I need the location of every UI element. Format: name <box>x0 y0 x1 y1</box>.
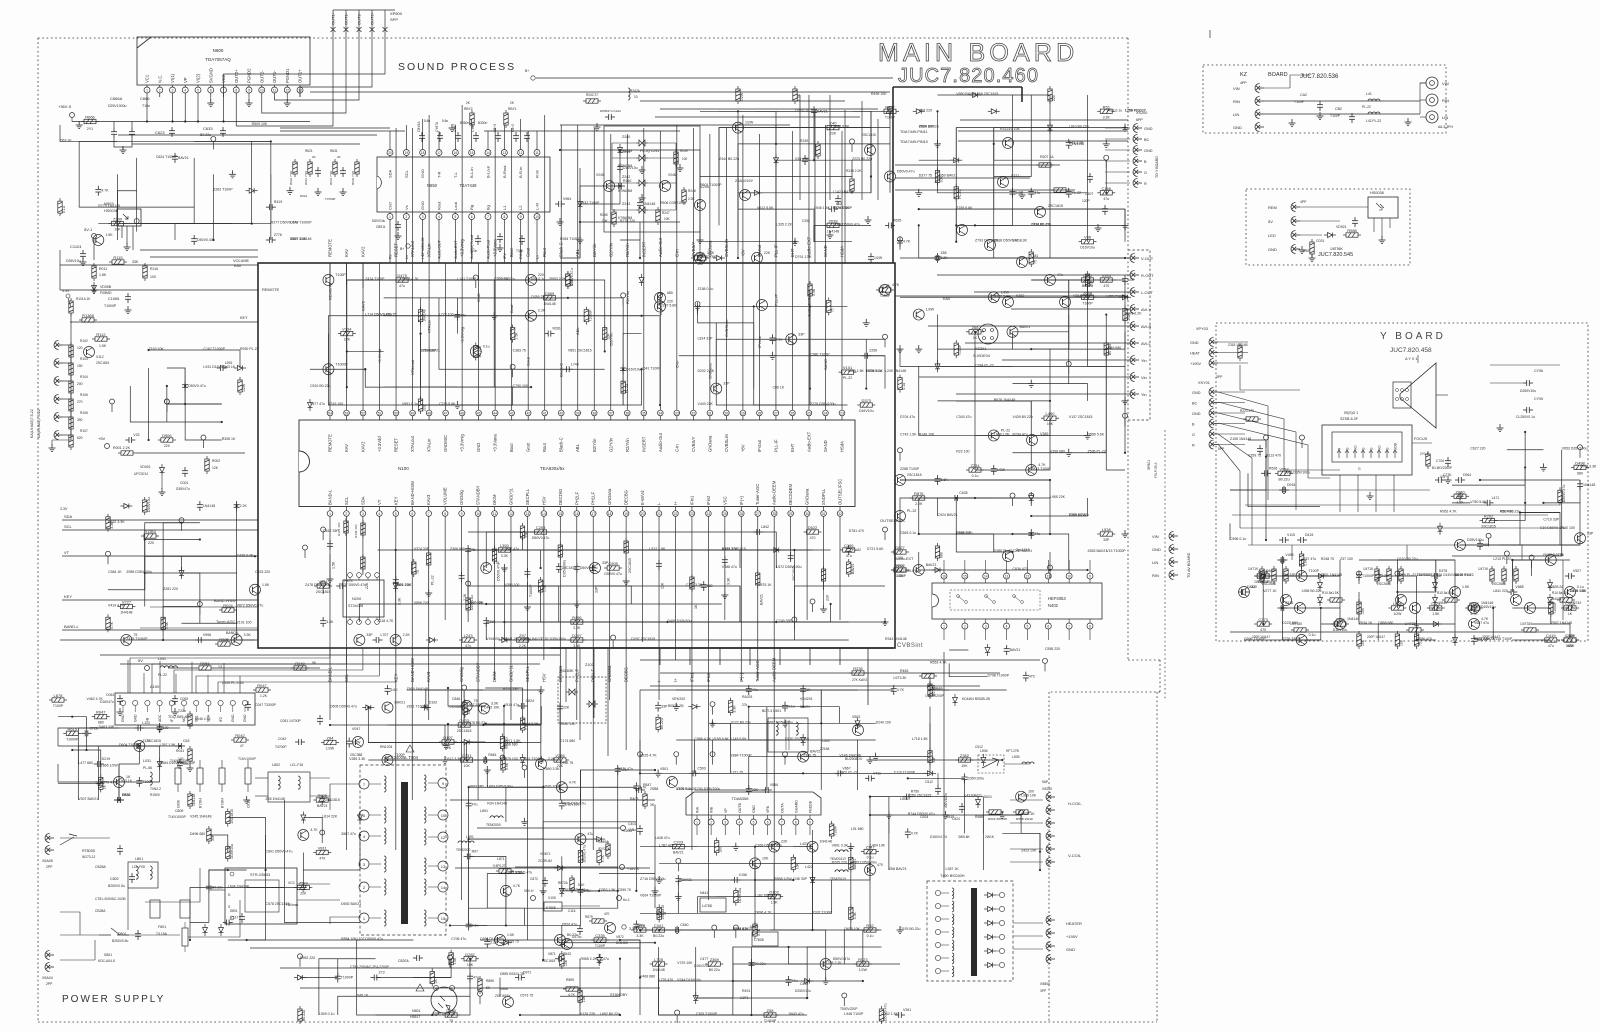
svg-text:D35V10u: D35V10u <box>66 259 81 263</box>
svg-text:IF: IF <box>170 719 174 722</box>
svg-text:IFVout: IFVout <box>757 336 762 348</box>
svg-text:CB+2: CB+2 <box>511 124 515 132</box>
svg-text:V307 BAV21: V307 BAV21 <box>78 797 98 801</box>
svg-text:D377 75: D377 75 <box>919 174 932 178</box>
svg-text:R625: R625 <box>893 218 901 222</box>
svg-text:R972 3.3K: R972 3.3K <box>994 294 1011 298</box>
svg-text:Audio-EXT: Audio-EXT <box>895 557 914 561</box>
svg-text:V246: V246 <box>668 173 676 177</box>
svg-text:R1368: R1368 <box>82 313 95 318</box>
svg-text:GNDdig: GNDdig <box>459 489 464 505</box>
svg-text:L509 0.1u: L509 0.1u <box>319 1012 335 1016</box>
svg-text:54: 54 <box>328 411 332 415</box>
svg-text:Z884 T1000P: Z884 T1000P <box>731 754 753 758</box>
svg-text:25: 25 <box>807 411 811 415</box>
svg-text:B2/Y/in: B2/Y/in <box>592 438 597 452</box>
svg-text:47u: 47u <box>460 314 466 318</box>
svg-text:RA201: RA201 <box>742 695 753 699</box>
svg-text:5.6K: 5.6K <box>391 688 399 692</box>
svg-text:220: 220 <box>164 444 170 448</box>
svg-text:F05MD: F05MD <box>100 291 112 295</box>
svg-text:CVBSLim: CVBSLim <box>724 433 729 452</box>
svg-text:GND: GND <box>1192 412 1201 416</box>
svg-text:D50V0.47u: D50V0.47u <box>188 384 206 388</box>
svg-text:1N4148: 1N4148 <box>423 309 427 321</box>
svg-text:Bg: Bg <box>486 205 491 210</box>
svg-text:Z68 BAV21: Z68 BAV21 <box>889 867 907 871</box>
svg-text:Z337 T100P: Z337 T100P <box>813 910 833 914</box>
svg-text:L-OUT: L-OUT <box>1141 290 1154 295</box>
svg-text:C329 220: C329 220 <box>494 277 509 281</box>
svg-text:+36V-S: +36V-S <box>58 104 72 109</box>
svg-text:17: 17 <box>591 512 595 516</box>
svg-text:C750 D35V100u: C750 D35V100u <box>694 787 720 791</box>
svg-text:CB2: CB2 <box>1335 107 1342 111</box>
svg-text:B-L-in: B-L-in <box>469 167 474 178</box>
svg-text:1/2W: 1/2W <box>926 308 935 312</box>
svg-text:R647: R647 <box>96 710 106 715</box>
svg-text:D441: D441 <box>1247 585 1255 589</box>
svg-text:7: 7 <box>487 215 489 219</box>
svg-text:2SA1015Y: 2SA1015Y <box>735 179 754 183</box>
svg-text:Z108 1N4148: Z108 1N4148 <box>1230 437 1251 441</box>
svg-text:T1000P: T1000P <box>66 737 79 741</box>
svg-text:V105: V105 <box>548 896 556 900</box>
svg-text:1N4148: 1N4148 <box>203 504 215 508</box>
svg-text:R116: R116 <box>150 267 158 271</box>
svg-text:2SC1815: 2SC1815 <box>96 361 110 365</box>
svg-text:390: 390 <box>77 418 83 422</box>
svg-text:RIN: RIN <box>1442 98 1449 103</box>
svg-text:VOLUME: VOLUME <box>233 259 250 263</box>
svg-text:GND: GND <box>1152 547 1161 552</box>
svg-text:R303 D35V100u: R303 D35V100u <box>562 888 588 892</box>
svg-text:C779 4.7K: C779 4.7K <box>101 780 118 784</box>
svg-text:T100P: T100P <box>335 273 346 277</box>
svg-text:2.2K: 2.2K <box>538 309 546 313</box>
svg-text:SAND: SAND <box>823 440 828 452</box>
svg-text:Lv: Lv <box>405 255 409 259</box>
svg-text:1N4148: 1N4148 <box>643 202 655 206</box>
svg-text:L948 T100P: L948 T100P <box>844 1012 864 1016</box>
svg-text:DECBG: DECBG <box>624 490 629 505</box>
svg-text:R952 4.7K: R952 4.7K <box>1440 510 1457 514</box>
svg-text:T100P: T100P <box>595 944 606 948</box>
svg-text:R294 47u: R294 47u <box>1013 432 1028 436</box>
svg-text:22K: 22K <box>764 251 771 255</box>
svg-text:C1065: C1065 <box>108 297 119 301</box>
svg-text:1/4T330: 1/4T330 <box>1290 622 1302 626</box>
svg-text:KDC-A04-5: KDC-A04-5 <box>98 959 115 963</box>
svg-text:C337 5.6K: C337 5.6K <box>660 303 677 307</box>
svg-text:PL-22: PL-22 <box>1072 191 1081 195</box>
svg-text:R890A: R890A <box>598 840 609 844</box>
svg-text:KAV3: KAV3 <box>426 494 431 505</box>
svg-text:D16V10u: D16V10u <box>230 844 234 859</box>
svg-text:6: 6 <box>210 89 212 93</box>
svg-text:D40 3.3K: D40 3.3K <box>1069 141 1084 145</box>
svg-text:14: 14 <box>984 575 988 579</box>
svg-text:T10n: T10n <box>142 104 150 108</box>
svg-text:DECBG: DECBG <box>624 667 629 682</box>
svg-text:46: 46 <box>460 411 464 415</box>
svg-text:L366 1.5K: L366 1.5K <box>396 583 413 587</box>
svg-text:RBY2: RBY2 <box>464 107 473 111</box>
svg-text:T2A7449: T2A7449 <box>460 183 478 188</box>
svg-text:10: 10 <box>535 215 539 219</box>
svg-text:Z240: Z240 <box>622 135 630 139</box>
svg-text:SDA: SDA <box>388 169 393 178</box>
svg-text:V841: V841 <box>1439 601 1447 605</box>
svg-text:L-M: L-M <box>535 203 540 210</box>
svg-text:2: 2 <box>346 512 348 516</box>
svg-text:SZSB-6-3F: SZSB-6-3F <box>1340 417 1359 421</box>
svg-text:T1000P: T1000P <box>764 1019 777 1023</box>
svg-text:Audio-DEEM: Audio-DEEM <box>772 657 777 682</box>
svg-text:C343 47u: C343 47u <box>956 415 971 419</box>
svg-text:5: 5 <box>395 512 397 516</box>
svg-text:V893 680: V893 680 <box>469 784 484 788</box>
svg-text:+3.3Vdd: +3.3Vdd <box>377 436 382 452</box>
svg-text:D524: D524 <box>984 795 992 799</box>
svg-text:V951 0.1u: V951 0.1u <box>402 402 418 406</box>
svg-text:L740: L740 <box>571 362 579 366</box>
svg-text:X5800: X5800 <box>1040 982 1050 986</box>
svg-text:LB01: LB01 <box>135 857 143 861</box>
svg-text:V371: V371 <box>1011 174 1019 178</box>
svg-text:680: 680 <box>1483 543 1489 547</box>
svg-text:R553 2.2K: R553 2.2K <box>549 277 566 281</box>
svg-text:2SC1815: 2SC1815 <box>661 905 665 920</box>
svg-text:3.3V: 3.3V <box>60 507 68 511</box>
svg-text:D589 5.6K: D589 5.6K <box>1088 432 1105 436</box>
svg-text:L931 D16V10u: L931 D16V10u <box>203 365 226 369</box>
svg-text:Z478 D35V100u: Z478 D35V100u <box>305 583 331 587</box>
svg-text:V856 220: V856 220 <box>414 601 429 605</box>
svg-text:VD4201: VD4201 <box>800 697 813 701</box>
svg-text:BAV21: BAV21 <box>1020 325 1031 329</box>
svg-text:R225 4.7K: R225 4.7K <box>640 754 657 758</box>
svg-text:L405: L405 <box>1566 633 1576 638</box>
svg-text:11: 11 <box>1047 575 1051 579</box>
svg-text:Y BOARD: Y BOARD <box>1380 331 1446 342</box>
svg-text:B-Rout: B-Rout <box>502 165 507 178</box>
svg-text:R553 4.7K: R553 4.7K <box>930 660 947 664</box>
svg-text:HSV: HSV <box>541 496 546 505</box>
svg-text:CT81-400VAC-102M: CT81-400VAC-102M <box>95 897 126 901</box>
svg-text:1/2W: 1/2W <box>1566 644 1575 648</box>
svg-text:0.1u: 0.1u <box>776 337 783 341</box>
svg-text:100: 100 <box>1361 608 1365 614</box>
svg-text:1N4148: 1N4148 <box>827 229 839 233</box>
svg-text:2.2K: 2.2K <box>519 644 527 648</box>
svg-text:47u: 47u <box>1034 532 1040 536</box>
svg-text:SCL: SCL <box>344 673 349 682</box>
svg-text:OUTSEL/FSC: OUTSEL/FSC <box>838 479 843 505</box>
svg-text:1.5K: 1.5K <box>99 344 107 348</box>
svg-text:V115: V115 <box>1287 533 1295 537</box>
svg-text:5: 5 <box>753 821 755 825</box>
svg-text:T-L: T-L <box>453 171 458 178</box>
svg-text:PH1LF: PH1LF <box>591 492 596 505</box>
svg-text:G2/Y/in: G2/Y/in <box>608 437 613 452</box>
svg-text:R051: R051 <box>200 661 210 666</box>
svg-text:6: 6 <box>471 215 473 219</box>
svg-text:30: 30 <box>725 411 729 415</box>
svg-text:CBY6A: CBY6A <box>417 121 421 132</box>
svg-text:BAND-H/SW: BAND-H/SW <box>410 658 415 682</box>
svg-text:D110 B0.22u: D110 B0.22u <box>1397 557 1417 561</box>
svg-text:C001: C001 <box>180 481 188 485</box>
svg-text:12: 12 <box>519 151 523 155</box>
svg-text:IFV: IFV <box>503 253 507 259</box>
svg-text:V996: V996 <box>203 633 211 637</box>
svg-text:L335 2.2K: L335 2.2K <box>776 222 793 226</box>
svg-text:D323 1K: D323 1K <box>1021 812 1035 816</box>
svg-text:VP: VP <box>724 808 728 813</box>
svg-text:Z478 T1000P: Z478 T1000P <box>126 637 148 641</box>
svg-text:100: 100 <box>682 157 688 161</box>
svg-text:GND: GND <box>133 714 137 722</box>
svg-text:2.2K: 2.2K <box>403 633 411 637</box>
svg-text:10K: 10K <box>114 228 121 232</box>
svg-text:2SC1815: 2SC1815 <box>325 798 340 802</box>
svg-text:Z58: Z58 <box>767 1008 775 1013</box>
svg-text:R661: R661 <box>488 753 496 757</box>
svg-text:A6-3-3PH: A6-3-3PH <box>1438 125 1453 129</box>
svg-text:RN1204: RN1204 <box>380 745 393 749</box>
svg-text:10: 10 <box>260 89 264 93</box>
svg-text:10K: 10K <box>464 764 471 768</box>
svg-text:C666A: C666A <box>110 96 123 101</box>
svg-text:X5200: X5200 <box>1042 787 1052 791</box>
svg-text:KEY: KEY <box>240 316 248 320</box>
svg-text:CVBSLim: CVBSLim <box>724 319 729 337</box>
svg-text:R261: R261 <box>552 327 560 331</box>
svg-text:R247: R247 <box>662 211 670 215</box>
svg-text:R113 470: R113 470 <box>1266 454 1281 458</box>
svg-text:D621: D621 <box>300 194 308 198</box>
svg-text:GNDdig: GNDdig <box>459 666 464 682</box>
svg-text:L91 680: L91 680 <box>851 827 864 831</box>
svg-text:VT: VT <box>377 499 382 505</box>
svg-text:B0.22u: B0.22u <box>302 1010 306 1021</box>
svg-text:PL-22: PL-22 <box>158 673 167 677</box>
svg-text:5: 5 <box>454 215 456 219</box>
svg-text:V345 5.6K: V345 5.6K <box>833 125 850 129</box>
svg-text:D16V10u: D16V10u <box>623 166 638 170</box>
svg-text:L1: L1 <box>502 205 507 210</box>
svg-text:1/2W: 1/2W <box>745 121 754 125</box>
svg-text:470: 470 <box>319 857 325 861</box>
svg-text:VIN: VIN <box>1233 86 1240 91</box>
svg-text:D16V10u: D16V10u <box>738 888 742 903</box>
svg-text:0.1u: 0.1u <box>788 705 795 709</box>
svg-text:R988: R988 <box>1347 228 1357 233</box>
svg-text:Z117: Z117 <box>231 916 239 920</box>
svg-text:R112: R112 <box>96 332 106 337</box>
svg-text:4PP: 4PP <box>1240 81 1247 85</box>
svg-text:CT81-250VAC-2E4-2200P: CT81-250VAC-2E4-2200P <box>350 965 390 969</box>
svg-text:TO Y BOARD: TO Y BOARD <box>1155 156 1159 178</box>
svg-text:Rv: Rv <box>389 254 393 259</box>
svg-text:PL-22: PL-22 <box>431 575 435 585</box>
svg-text:9: 9 <box>461 512 463 516</box>
svg-text:R248: R248 <box>688 189 696 193</box>
svg-text:HSdA: HSdA <box>840 246 845 257</box>
svg-text:V851 2SC1815: V851 2SC1815 <box>568 348 592 352</box>
svg-text:1/4T1K: 1/4T1K <box>1248 567 1259 571</box>
svg-text:Z668: Z668 <box>1083 290 1093 295</box>
svg-text:C563 0.1u: C563 0.1u <box>900 531 916 535</box>
svg-text:L770 100: L770 100 <box>439 313 454 317</box>
svg-text:V439 B0.22u: V439 B0.22u <box>1013 415 1033 419</box>
svg-text:V872: V872 <box>616 935 624 939</box>
svg-text:Z2168: Z2168 <box>820 747 830 751</box>
svg-text:VI(1): VI(1) <box>170 73 175 83</box>
svg-text:R042: R042 <box>235 733 245 738</box>
svg-text:D50V0.47u: D50V0.47u <box>497 563 501 581</box>
svg-text:C555 220: C555 220 <box>1045 647 1060 651</box>
svg-text:C872: C872 <box>530 877 538 881</box>
svg-text:HEF4053: HEF4053 <box>1048 596 1066 601</box>
svg-text:L255 2.2K: L255 2.2K <box>826 961 843 965</box>
svg-text:Audio-Out: Audio-Out <box>658 237 663 257</box>
svg-text:Z241: Z241 <box>622 150 630 154</box>
svg-text:30: 30 <box>805 512 809 516</box>
svg-text:3.3V: 3.3V <box>62 289 70 293</box>
svg-text:PGND1: PGND1 <box>285 68 290 83</box>
svg-text:Rg: Rg <box>469 205 474 210</box>
svg-text:R930 PL-22: R930 PL-22 <box>240 347 259 351</box>
svg-text:L714 D50V0.47u: L714 D50V0.47u <box>365 313 391 317</box>
svg-text:33P: 33P <box>723 382 730 386</box>
svg-text:T10n: T10n <box>470 249 477 253</box>
svg-text:1/4T1K: 1/4T1K <box>1478 567 1489 571</box>
svg-text:22K: 22K <box>563 706 570 710</box>
svg-text:R97: R97 <box>472 849 478 853</box>
svg-text:3.3K: 3.3K <box>501 554 509 558</box>
svg-text:R34 1N4148: R34 1N4148 <box>487 802 507 806</box>
svg-text:47u: 47u <box>752 688 758 692</box>
svg-text:EHT: EHT <box>790 443 795 452</box>
svg-text:HD: HD <box>1378 445 1382 450</box>
svg-text:C635: C635 <box>959 491 967 495</box>
svg-text:1N4148: 1N4148 <box>1347 617 1359 621</box>
svg-text:XTALin: XTALin <box>427 320 432 333</box>
svg-text:L666 2SC1815: L666 2SC1815 <box>975 92 998 96</box>
svg-text:RIN: RIN <box>1152 573 1159 578</box>
svg-text:L668 1.5K: L668 1.5K <box>994 432 1011 436</box>
svg-text:75: 75 <box>449 1019 453 1023</box>
svg-text:Z226 33P: Z226 33P <box>1282 637 1298 641</box>
svg-text:1: 1 <box>329 512 331 516</box>
svg-text:2.2K: 2.2K <box>1381 574 1389 578</box>
svg-text:28: 28 <box>772 512 776 516</box>
svg-text:OUTSEL/FSC: OUTSEL/FSC <box>880 518 905 523</box>
svg-text:47u: 47u <box>1103 197 1109 201</box>
svg-text:C1124: C1124 <box>70 244 82 249</box>
svg-text:1/2T3.3K: 1/2T3.3K <box>893 676 907 680</box>
svg-text:Z813 T100P: Z813 T100P <box>1031 467 1051 471</box>
svg-text:Gout: Gout <box>526 247 531 257</box>
svg-text:D971: D971 <box>523 971 531 975</box>
svg-text:R2/Y/in: R2/Y/in <box>625 243 630 257</box>
svg-text:10K: 10K <box>582 995 586 1002</box>
svg-text:3PP: 3PP <box>1040 989 1047 993</box>
svg-text:T1000P: T1000P <box>104 304 117 308</box>
svg-text:V503 4.7K: V503 4.7K <box>402 277 419 281</box>
svg-text:JUC7.820.458: JUC7.820.458 <box>1390 347 1432 354</box>
svg-text:R859 10K: R859 10K <box>560 722 576 726</box>
svg-text:D353 1.5K: D353 1.5K <box>599 888 616 892</box>
svg-text:BCT-4 L501: BCT-4 L501 <box>762 709 781 713</box>
svg-text:Audio-Out: Audio-Out <box>658 432 663 452</box>
svg-text:T1000P: T1000P <box>588 309 592 322</box>
svg-text:40: 40 <box>559 411 563 415</box>
svg-text:2SC1815: 2SC1815 <box>628 558 632 573</box>
svg-text:4.7K: 4.7K <box>569 780 577 784</box>
svg-text:BAV21: BAV21 <box>1010 648 1021 652</box>
svg-text:R242 27: R242 27 <box>586 93 598 97</box>
svg-text:L125 D50V0.47u: L125 D50V0.47u <box>506 871 532 875</box>
svg-text:C706 47u: C706 47u <box>451 937 466 941</box>
svg-text:HD: HD <box>1354 445 1358 450</box>
svg-text:1/2W: 1/2W <box>1393 612 1402 616</box>
svg-text:R955 2.2K: R955 2.2K <box>580 957 597 961</box>
svg-text:3: 3 <box>422 215 424 219</box>
svg-text:R22 100: R22 100 <box>956 450 969 454</box>
svg-text:5V: 5V <box>1268 219 1273 224</box>
svg-text:XSY01: XSY01 <box>1198 381 1210 385</box>
svg-text:C335: C335 <box>595 933 605 938</box>
svg-text:B050n: B050n <box>460 121 469 125</box>
svg-text:Z118 4.7K: Z118 4.7K <box>378 619 395 623</box>
svg-text:BAV21: BAV21 <box>817 109 828 113</box>
svg-text:RT802B: RT802B <box>82 849 95 853</box>
svg-text:75: 75 <box>416 570 420 574</box>
svg-text:RESET: RESET <box>394 438 399 452</box>
svg-text:D250V10u: D250V10u <box>1520 389 1536 393</box>
svg-text:L956 B0.22u: L956 B0.22u <box>1302 589 1322 593</box>
svg-text:XTALout: XTALout <box>410 435 415 452</box>
svg-text:C540: C540 <box>680 923 688 927</box>
svg-text:R1354: R1354 <box>144 529 157 534</box>
svg-text:Z275 D35V100u: Z275 D35V100u <box>810 402 836 406</box>
svg-text:2SC1815Y: 2SC1815Y <box>495 994 511 998</box>
svg-text:R140: R140 <box>623 179 631 183</box>
svg-text:R-OUT: R-OUT <box>1141 273 1154 278</box>
svg-text:9: 9 <box>248 89 250 93</box>
svg-text:KEY: KEY <box>64 594 72 599</box>
svg-text:V047: V047 <box>352 727 360 731</box>
svg-text:V711: V711 <box>873 771 881 775</box>
svg-text:BAND-L: BAND-L <box>328 489 333 505</box>
svg-text:4: 4 <box>1006 625 1008 629</box>
svg-text:L955 22K: L955 22K <box>1050 495 1066 499</box>
svg-text:B052B-2B: B052B-2B <box>668 704 684 708</box>
svg-text:TDA7057AQ: TDA7057AQ <box>205 57 231 62</box>
svg-text:X5A05: X5A05 <box>42 859 53 863</box>
svg-text:47u: 47u <box>399 284 405 288</box>
svg-text:D622: D622 <box>808 525 818 530</box>
svg-text:D896 4.7K: D896 4.7K <box>755 910 772 914</box>
svg-text:D50V0.47u: D50V0.47u <box>580 566 598 570</box>
svg-text:R354 T1000P: R354 T1000P <box>560 237 582 241</box>
svg-text:31: 31 <box>822 512 826 516</box>
svg-text:D297: D297 <box>572 633 582 638</box>
svg-text:1: 1 <box>146 89 148 93</box>
